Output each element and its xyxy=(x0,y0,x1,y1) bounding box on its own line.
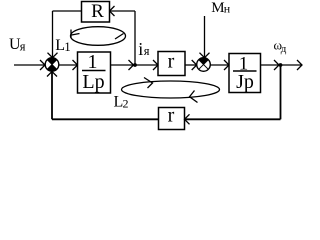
svg-text:1: 1 xyxy=(64,39,71,54)
label omega_д xyxy=(274,38,287,56)
wire down to S1 top xyxy=(52,11,54,58)
label L1 xyxy=(55,37,71,54)
node omega junction dot xyxy=(279,63,283,67)
arrow into S1 top xyxy=(48,53,58,58)
arrow into r xyxy=(153,60,158,70)
wire bottom feedback left segment xyxy=(52,118,159,120)
svg-text:Lp: Lp xyxy=(82,71,104,93)
wire M_н down to S2 xyxy=(204,16,206,58)
arrow into S2 top xyxy=(200,53,210,58)
loop L1 ellipse xyxy=(71,27,126,46)
svg-text:М: М xyxy=(211,0,224,16)
wire R output left xyxy=(53,10,82,12)
block r (speed feedback) xyxy=(159,105,185,130)
svg-text:1: 1 xyxy=(88,51,98,73)
svg-text:я: я xyxy=(144,44,150,58)
svg-text:R: R xyxy=(91,1,104,22)
arrow into S2 left xyxy=(192,60,197,70)
wire node omega down riser xyxy=(280,65,282,119)
loop L2 ellipse xyxy=(122,78,220,103)
arrow into S1 left xyxy=(40,60,45,70)
svg-text:я: я xyxy=(20,39,26,53)
block r (armature resistance) xyxy=(158,51,185,76)
arrow before node i_я xyxy=(129,60,134,70)
svg-text:н: н xyxy=(224,1,231,15)
label L2 xyxy=(114,94,129,111)
arrow before node omega xyxy=(274,60,279,70)
arrow into 1/Jp xyxy=(224,60,229,70)
wire node i_я up (riser) xyxy=(134,11,136,65)
label i_я xyxy=(138,39,150,59)
arrow output xyxy=(297,60,302,70)
arrow into S1 bottom xyxy=(47,72,57,77)
label U_я xyxy=(9,36,26,53)
summing junction S2 xyxy=(197,58,211,72)
label M_н xyxy=(211,0,230,16)
svg-text:д: д xyxy=(281,43,287,55)
summing junction S1 xyxy=(45,58,59,72)
svg-text:i: i xyxy=(138,39,143,59)
arrow into R right xyxy=(110,6,115,16)
wire node omega to output xyxy=(281,64,303,66)
svg-text:Jp: Jp xyxy=(236,71,254,93)
wire r to S2 xyxy=(185,64,197,66)
wire bottom feedback right segment xyxy=(185,118,281,120)
node i_я junction dot xyxy=(133,63,137,67)
block 1/Lp xyxy=(78,51,111,93)
wire S2 to block 1/Jp xyxy=(210,64,229,66)
wire S1 to block 1/Lp xyxy=(59,64,78,66)
svg-text:r: r xyxy=(168,105,175,127)
block 1/Jp xyxy=(229,54,261,94)
arrow into r right xyxy=(185,114,190,124)
wire top to R input xyxy=(110,10,136,12)
svg-text:r: r xyxy=(168,51,175,73)
wire 1/Jp to node omega xyxy=(261,64,281,66)
wire 1/Lp to node i_я xyxy=(111,64,136,66)
block R xyxy=(82,1,110,22)
wire input to S1 xyxy=(14,64,45,66)
wire node i_я to block r xyxy=(135,64,158,66)
wire S1 bottom riser (feedback up) xyxy=(51,72,53,120)
svg-text:2: 2 xyxy=(123,97,129,111)
arrow into 1/Lp xyxy=(73,60,78,70)
